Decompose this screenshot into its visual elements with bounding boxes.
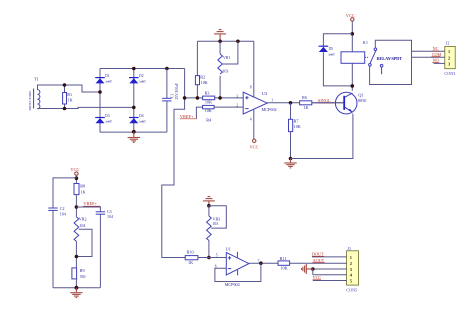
wire Q1 emitter to ground row (291, 114, 353, 159)
wire pin3 to pin4 tie (312, 269, 314, 275)
svg-text:104: 104 (79, 223, 85, 228)
op-amp U3 (236, 41, 276, 139)
svg-text:1K: 1K (188, 260, 193, 265)
svg-text:10K: 10K (201, 80, 208, 85)
svg-text:D5: D5 (329, 47, 334, 51)
svg-text:VCC: VCC (346, 13, 355, 18)
capacitor C1 (162, 69, 179, 133)
svg-text:1: 1 (448, 49, 450, 54)
node R10 output junction (207, 256, 211, 260)
relay K1 NO contact (380, 64, 383, 74)
power VCC port top right (346, 13, 355, 21)
power VCC bar symbol above VR1 (214, 30, 226, 42)
svg-text:K1: K1 (363, 40, 368, 45)
svg-text:VCC: VCC (250, 144, 259, 149)
diode D2 (129, 74, 147, 83)
node D5 top branch (351, 32, 355, 36)
wire T1 bottom terminal to bridge (38, 107, 134, 108)
svg-text:2: 2 (448, 55, 450, 60)
node U3 output branch R7 (289, 101, 293, 105)
wire T1 top terminal to bridge (38, 85, 101, 92)
potentiometer VR2 (74, 217, 92, 257)
wire bridge top rail (100, 68, 185, 70)
svg-text:R1: R1 (67, 92, 72, 97)
svg-text:VREF+: VREF+ (83, 201, 97, 206)
svg-text:C2: C2 (60, 206, 65, 211)
svg-text:R3: R3 (205, 91, 210, 96)
svg-text:1K: 1K (68, 97, 73, 102)
wire J1 pin5 VCC (313, 280, 347, 282)
svg-text:1n4007: 1n4007 (105, 121, 112, 124)
relay K1 armature (370, 51, 376, 63)
net label VREF+ left (83, 201, 100, 206)
node C1 top rail (165, 67, 169, 71)
svg-text:VREF+: VREF+ (180, 114, 194, 119)
node R2 bottom on R3 row (196, 96, 200, 100)
svg-text:J2: J2 (446, 41, 450, 46)
svg-text:R10: R10 (187, 250, 194, 255)
inductor T1 (28, 77, 40, 111)
potentiometer VR1 (218, 41, 238, 98)
power VCC port below U3 (250, 139, 259, 149)
svg-text:3: 3 (236, 94, 238, 98)
svg-text:D1: D1 (105, 74, 110, 78)
net label VREF+ (180, 114, 197, 119)
svg-text:103: 103 (222, 68, 228, 73)
node VREF+ junction (75, 205, 79, 209)
relay K1 NC contact (369, 64, 372, 67)
node VR3 top (207, 204, 211, 208)
svg-text:103: 103 (212, 221, 218, 226)
ground below R7 (284, 159, 296, 168)
node VR1 top rail (218, 40, 222, 44)
svg-text:COM: COM (432, 52, 442, 57)
wire VR3 bottom to input row (208, 241, 210, 258)
svg-text:VR2: VR2 (79, 217, 87, 222)
svg-text:U1: U1 (226, 246, 231, 251)
resistor R3 (203, 91, 215, 105)
resistor R8 (74, 184, 86, 195)
svg-text:C3: C3 (107, 209, 112, 214)
node pin3 pin4 tie (311, 267, 315, 271)
node U1 output feedback (259, 261, 263, 265)
svg-text:R9: R9 (80, 268, 85, 273)
net label AOUT (313, 258, 325, 263)
wire U1 feedback loop (215, 263, 261, 281)
wire VCC feed down to relay coil and Q1 (351, 21, 353, 91)
svg-text:R4: R4 (206, 117, 212, 122)
svg-text:10K: 10K (280, 266, 287, 271)
node VR1 wiper rail (236, 40, 240, 44)
resistor R2 (195, 41, 207, 98)
svg-text:R7: R7 (294, 118, 299, 123)
svg-text:104: 104 (60, 211, 66, 216)
ground sideways at J1 pin3 (302, 264, 313, 274)
wire R8 to VR2 (75, 195, 77, 217)
svg-text:1n4007: 1n4007 (105, 81, 112, 84)
svg-text:10K: 10K (205, 99, 212, 104)
svg-text:2: 2 (350, 261, 352, 266)
net label NC (432, 46, 439, 51)
svg-text:CON5: CON5 (346, 288, 357, 293)
svg-text:10K: 10K (294, 124, 301, 129)
svg-text:25V/100uF: 25V/100uF (175, 83, 179, 99)
node R1 bottom (63, 107, 67, 111)
node rectifier output (183, 96, 187, 100)
svg-text:MCP602: MCP602 (225, 282, 240, 287)
svg-text:104: 104 (107, 214, 113, 219)
svg-text:NO: NO (433, 58, 439, 63)
relay K1 dashed link (365, 56, 369, 58)
resistor R1 (63, 85, 73, 109)
relay K1 common contact (374, 48, 377, 51)
svg-text:INDUCTOR0: INDUCTOR0 (28, 90, 32, 110)
svg-text:MCP602: MCP602 (262, 107, 277, 112)
potentiometer VR3 (207, 206, 227, 241)
wire R3 input row (185, 97, 244, 99)
svg-text:1n4007: 1n4007 (328, 53, 335, 56)
svg-text:VCC: VCC (313, 275, 322, 280)
wire bridge bottom rail (100, 131, 167, 133)
svg-text:T1: T1 (34, 77, 39, 82)
svg-text:DOUT: DOUT (312, 252, 324, 257)
svg-text:1: 1 (271, 99, 273, 103)
wire bridge left column (99, 69, 101, 133)
relay K1 coil (341, 52, 365, 64)
node bridge left input (98, 90, 102, 94)
wire R11 to J1 pin2 (290, 262, 347, 264)
wire bridge middle column (133, 69, 135, 133)
svg-text:2: 2 (236, 104, 238, 108)
wire relay to J2 pin1 (412, 50, 445, 52)
diode D5 (319, 46, 336, 56)
node bridge middle input (132, 106, 136, 110)
wire stub J2 pin3 (434, 62, 445, 64)
svg-text:10K: 10K (205, 108, 212, 113)
svg-text:D4: D4 (139, 114, 144, 118)
svg-text:J1: J1 (347, 246, 351, 251)
diode D1 (95, 74, 113, 83)
svg-text:R11: R11 (280, 256, 287, 261)
wire VREF row to C3 (76, 207, 100, 288)
node VR1 bottom on R3 row (218, 96, 222, 100)
transistor Q1 (312, 92, 367, 114)
svg-text:1K: 1K (303, 105, 308, 110)
connector J2 (444, 41, 455, 76)
wire relay to J2 pin2 (412, 56, 445, 58)
wire U3 output row (267, 102, 343, 104)
resistor R9 (72, 268, 86, 279)
resistor R11 (278, 256, 290, 271)
wire R10 to U1 plus input (198, 257, 226, 259)
op-amp U1 (215, 246, 260, 287)
svg-text:1: 1 (350, 255, 352, 260)
node D2 top rail (132, 67, 136, 71)
resistor R7 (289, 103, 301, 159)
capacitor C2 (48, 206, 66, 216)
wire left block bottom rail (53, 287, 100, 289)
node VR2 wiper bottom (75, 255, 79, 259)
net label SINGL (318, 98, 335, 103)
svg-text:VR1: VR1 (223, 55, 231, 60)
net label NO (432, 58, 439, 63)
ground below bridge (128, 132, 140, 143)
node coil bottom collector junction (351, 84, 355, 88)
resistor R6 (300, 95, 312, 110)
svg-text:RELAY-SPDT: RELAY-SPDT (377, 56, 403, 61)
capacitor C3 (96, 209, 113, 219)
diode D3 (95, 114, 113, 123)
diode D4 (129, 114, 147, 123)
svg-text:8: 8 (250, 86, 252, 90)
wire J1 pin4 (313, 274, 347, 276)
svg-text:VCC: VCC (70, 167, 79, 172)
svg-text:1K: 1K (80, 189, 85, 194)
node R1 top (63, 83, 67, 87)
wire J1 pin3 ground row (306, 268, 346, 270)
node bottom rail center (75, 286, 79, 290)
ground left block (70, 288, 82, 298)
svg-text:SINGL: SINGL (318, 98, 331, 103)
net label DOUT (312, 252, 324, 257)
svg-text:R8: R8 (80, 184, 85, 189)
wire D5 parallel branch (323, 34, 352, 86)
wire long feed from rectifier node down to U1 stage (162, 69, 185, 258)
node R7 bottom emitter junction (289, 157, 293, 161)
resistor R4 (203, 105, 215, 122)
relay K1 contact frame (370, 40, 412, 84)
wire VR1 power rail (197, 40, 253, 42)
resistor R10 (185, 250, 198, 265)
svg-text:CON3: CON3 (444, 71, 455, 76)
svg-text:1n4007: 1n4007 (139, 81, 146, 84)
svg-text:8050: 8050 (358, 98, 366, 103)
svg-text:C1: C1 (170, 93, 174, 98)
svg-text:4: 4 (250, 117, 252, 121)
node bridge bottom center (132, 130, 136, 134)
wire J1 pin1 DOUT (312, 256, 347, 258)
node C2 branch top (75, 176, 79, 180)
svg-text:AOUT: AOUT (313, 258, 325, 263)
net label VCC at J1 (313, 275, 322, 280)
wire C2 branch (53, 178, 76, 288)
power VCC port left block (70, 167, 79, 175)
wire U1 output row (249, 262, 278, 264)
power VCC bar symbol above VR3 (203, 197, 215, 206)
wire R9 to bottom rail (75, 279, 77, 288)
connector J1 (346, 246, 358, 293)
svg-text:R6: R6 (302, 95, 307, 100)
svg-text:501: 501 (80, 274, 86, 279)
wire R4 row to inverting input (196, 107, 243, 119)
svg-text:1n4007: 1n4007 (139, 121, 146, 124)
svg-text:D3: D3 (105, 114, 110, 118)
net label COM (432, 52, 442, 57)
wire VR2 to R9 (75, 241, 77, 268)
wire VCC stem left block (75, 175, 77, 183)
svg-text:D2: D2 (139, 74, 144, 78)
svg-text:NC: NC (433, 46, 439, 51)
svg-text:5: 5 (216, 253, 218, 257)
svg-text:U3: U3 (262, 91, 268, 96)
